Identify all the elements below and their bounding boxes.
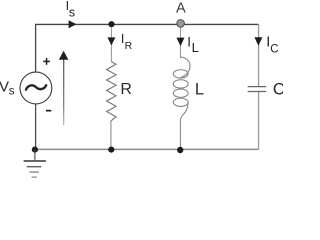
- svg-text:s: s: [69, 5, 75, 19]
- svg-text:I: I: [187, 34, 191, 49]
- wire L branch lower: [179, 122, 181, 149]
- node dot ground left: [32, 147, 38, 153]
- wire L branch upper: [180, 28, 182, 59]
- current arrow IL: [177, 38, 185, 47]
- minus sign: [46, 110, 51, 112]
- wire right lower: [258, 92, 260, 149]
- svg-text:C: C: [273, 80, 283, 98]
- inductor L loop 2: [173, 80, 188, 88]
- node dot R top: [108, 21, 114, 27]
- svg-text:L: L: [192, 40, 199, 55]
- ground bar 2: [27, 166, 42, 168]
- svg-text:s: s: [9, 86, 15, 98]
- ground bar 3: [29, 171, 38, 173]
- wire left lower: [35, 104, 37, 150]
- wire bottom: [35, 148, 259, 150]
- plus sign: [43, 58, 50, 65]
- wire R branch upper: [110, 27, 112, 62]
- wire right upper: [258, 24, 260, 86]
- current arrow Is: [69, 20, 77, 28]
- inductor L coil entry: [181, 57, 191, 77]
- wire left upper: [35, 24, 37, 72]
- node A: [177, 20, 185, 28]
- node dot L bottom: [177, 147, 183, 153]
- source V1 circle: [20, 72, 52, 104]
- svg-text:R: R: [125, 40, 133, 52]
- capacitor C bottom plate: [248, 91, 267, 93]
- svg-text:A: A: [176, 0, 186, 16]
- inductor L loop 3: [173, 89, 188, 97]
- wire top: [35, 23, 259, 25]
- inductor L loop 1: [173, 70, 188, 78]
- inductor L coil exit: [180, 102, 188, 122]
- svg-text:C: C: [270, 43, 278, 55]
- ground bar 1: [24, 160, 46, 162]
- svg-text:V: V: [0, 78, 9, 95]
- resistor R: [107, 62, 116, 121]
- current arrow IR: [107, 37, 115, 45]
- ground stem: [34, 150, 36, 161]
- svg-text:R: R: [120, 81, 132, 98]
- wire R branch lower: [110, 121, 112, 150]
- source sine tilde: [26, 85, 46, 89]
- current arrow IC: [254, 37, 262, 45]
- ground bar 4: [32, 176, 37, 178]
- inductor L loop 4: [173, 98, 188, 106]
- capacitor C top plate: [248, 86, 267, 88]
- svg-text:L: L: [195, 81, 204, 99]
- voltage arrow up: [63, 60, 65, 126]
- node dot R bottom: [108, 147, 114, 153]
